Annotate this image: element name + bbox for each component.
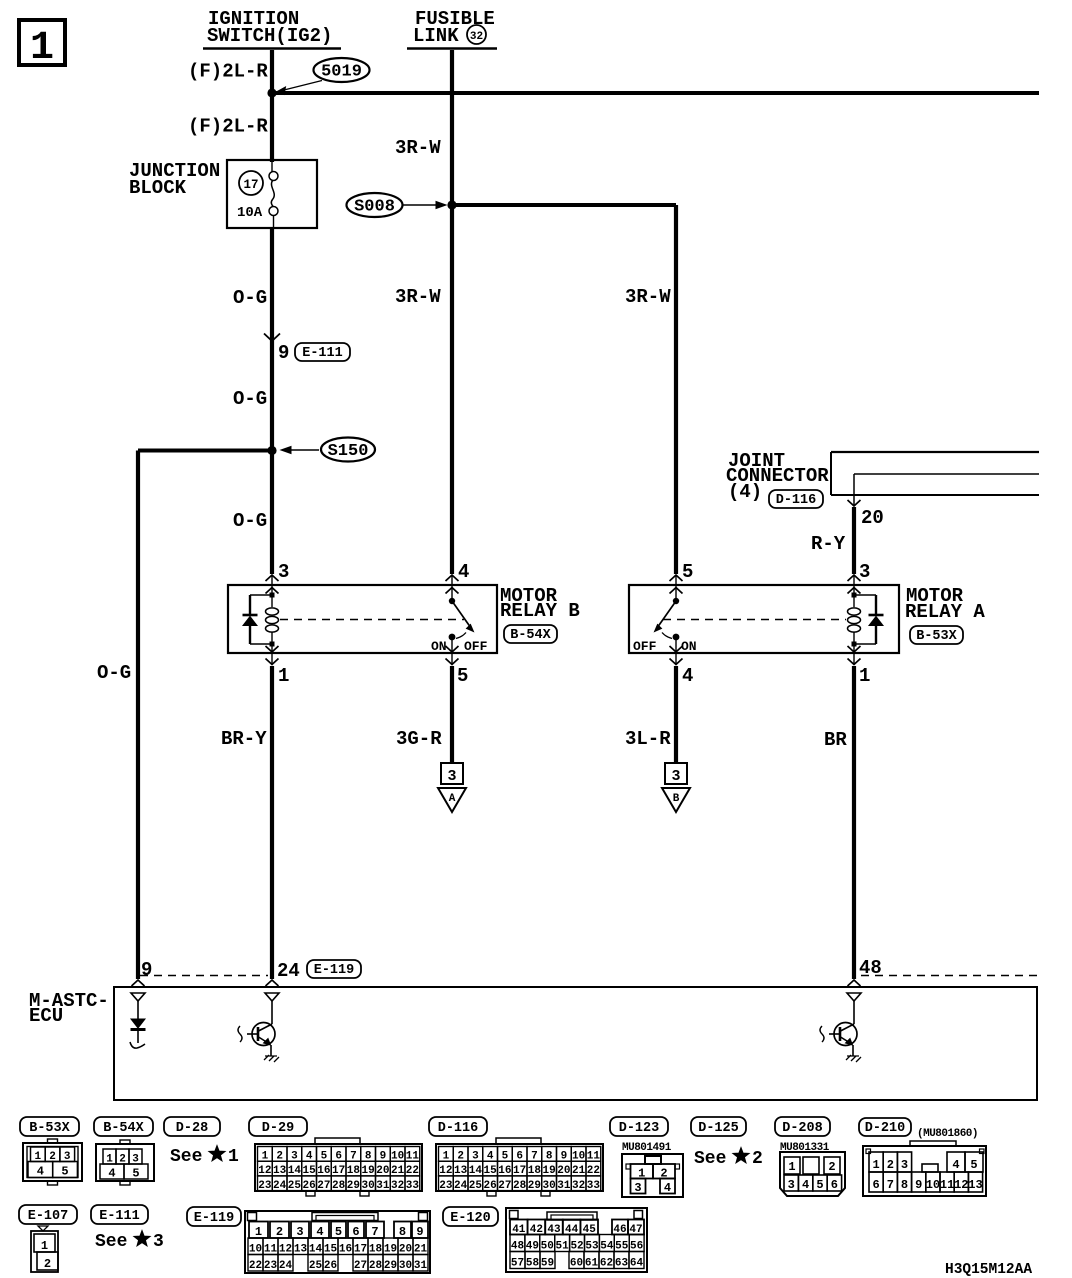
svg-text:28: 28 bbox=[369, 1260, 383, 1272]
svg-text:7: 7 bbox=[887, 1178, 894, 1192]
relay A connector ident B-53X bbox=[910, 626, 963, 644]
svg-text:1: 1 bbox=[228, 1147, 239, 1167]
svg-text:3: 3 bbox=[447, 768, 456, 785]
wire: left O-G branch down to ECU pin 9 bbox=[136, 451, 140, 980]
svg-text:5: 5 bbox=[335, 1225, 342, 1239]
wire: horizontal O-G branch at S150 bbox=[138, 449, 272, 453]
terminal chevrons relay B pin 5 bbox=[446, 646, 459, 665]
svg-text:9: 9 bbox=[141, 959, 152, 981]
svg-text:13: 13 bbox=[968, 1178, 982, 1192]
wire: 3R-W branch down to relay A pin 5 bbox=[674, 205, 678, 574]
svg-text:8: 8 bbox=[901, 1178, 908, 1192]
relay B name label bbox=[500, 585, 580, 622]
fusible link 32 power source label bbox=[407, 8, 497, 49]
svg-text:48: 48 bbox=[859, 957, 882, 979]
svg-text:3R-W: 3R-W bbox=[395, 286, 441, 308]
terminal chevron at joint connector pin 20 bbox=[848, 500, 861, 506]
svg-text:49: 49 bbox=[526, 1241, 539, 1253]
svg-text:5: 5 bbox=[457, 665, 468, 687]
terminal chevron ECU pin 48 bbox=[848, 980, 861, 986]
terminal chevrons relay A pin 4 bbox=[670, 646, 683, 665]
svg-text:23: 23 bbox=[264, 1260, 278, 1272]
svg-text:D-116: D-116 bbox=[438, 1121, 479, 1136]
svg-text:R-Y: R-Y bbox=[811, 533, 846, 555]
wire 3G-R from relay B pin 5 bbox=[450, 666, 454, 763]
svg-text:O-G: O-G bbox=[97, 662, 131, 684]
svg-text:ON: ON bbox=[681, 639, 697, 654]
svg-text:BR: BR bbox=[824, 729, 847, 751]
svg-text:1: 1 bbox=[278, 665, 289, 687]
connector ident D-125 bbox=[691, 1117, 746, 1136]
svg-text:4: 4 bbox=[802, 1178, 809, 1192]
svg-text:E-120: E-120 bbox=[450, 1211, 491, 1226]
svg-text:23: 23 bbox=[258, 1180, 272, 1192]
splice S150 callout bbox=[281, 438, 375, 462]
svg-text:RELAY B: RELAY B bbox=[500, 600, 580, 622]
svg-text:60: 60 bbox=[570, 1258, 583, 1270]
svg-text:1: 1 bbox=[30, 26, 54, 71]
ECU output transistor on pin 48 bbox=[820, 1001, 861, 1062]
ECU output transistor on pin 24 bbox=[238, 1001, 279, 1062]
svg-text:(MU801860): (MU801860) bbox=[917, 1128, 978, 1140]
svg-text:32: 32 bbox=[572, 1180, 585, 1192]
svg-text:17: 17 bbox=[354, 1244, 367, 1256]
svg-text:3G-R: 3G-R bbox=[396, 728, 442, 750]
connector drawing D-116 bbox=[436, 1138, 603, 1196]
svg-text:4: 4 bbox=[952, 1158, 959, 1172]
svg-text:ON: ON bbox=[431, 639, 447, 654]
connector E-119 boundary dashes right bbox=[861, 975, 1039, 977]
relay A flyback diode bbox=[854, 595, 884, 644]
terminal chevrons relay A pin 3 bbox=[848, 575, 861, 594]
svg-text:63: 63 bbox=[615, 1258, 629, 1270]
svg-text:D-116: D-116 bbox=[776, 493, 817, 508]
svg-text:See: See bbox=[170, 1147, 202, 1167]
svg-text:B: B bbox=[673, 793, 680, 805]
svg-text:6: 6 bbox=[352, 1225, 359, 1239]
svg-text:RELAY A: RELAY A bbox=[905, 601, 985, 623]
node: junction of ignition wire and top bus bbox=[267, 88, 276, 97]
relay B flyback diode bbox=[243, 595, 273, 644]
svg-text:BLOCK: BLOCK bbox=[129, 177, 187, 199]
svg-text:14: 14 bbox=[309, 1244, 323, 1256]
relay B coil bbox=[266, 575, 279, 664]
svg-text:24: 24 bbox=[277, 960, 300, 982]
connector ident D-208 bbox=[775, 1117, 830, 1136]
svg-text:OFF: OFF bbox=[464, 639, 488, 654]
svg-text:4: 4 bbox=[458, 561, 469, 583]
wire BR-Y from relay B pin 1 to ECU pin 24 bbox=[270, 666, 274, 979]
svg-text:ECU: ECU bbox=[29, 1005, 63, 1027]
svg-text:30: 30 bbox=[543, 1180, 556, 1192]
svg-text:24: 24 bbox=[273, 1180, 287, 1192]
fuse 17 circle designator bbox=[239, 171, 263, 195]
svg-text:15: 15 bbox=[324, 1244, 338, 1256]
svg-text:3: 3 bbox=[859, 561, 870, 583]
svg-text:B-54X: B-54X bbox=[103, 1121, 144, 1136]
splice S008 callout bbox=[347, 193, 447, 217]
connector drawing B-54X bbox=[96, 1140, 154, 1185]
relay B switch bbox=[449, 575, 474, 664]
svg-text:7: 7 bbox=[371, 1225, 378, 1239]
joint connector (4) label bbox=[726, 450, 829, 503]
ECU input socket pin 48 bbox=[847, 993, 861, 1001]
terminal chevron ECU pin 24 bbox=[266, 980, 279, 986]
svg-text:1: 1 bbox=[41, 1239, 48, 1253]
svg-text:24: 24 bbox=[454, 1180, 468, 1192]
M-ASTC-ECU box bbox=[114, 987, 1037, 1100]
svg-text:64: 64 bbox=[630, 1258, 644, 1270]
svg-text:33: 33 bbox=[406, 1180, 420, 1192]
connector drawing E-119 bbox=[245, 1211, 430, 1273]
svg-text:4: 4 bbox=[682, 665, 693, 687]
svg-text:32: 32 bbox=[391, 1180, 404, 1192]
svg-text:BR-Y: BR-Y bbox=[221, 728, 267, 750]
relay B connector ident B-54X bbox=[504, 625, 557, 643]
svg-text:20: 20 bbox=[861, 507, 884, 529]
svg-text:6: 6 bbox=[872, 1178, 879, 1192]
connector ident D-116 bbox=[429, 1117, 487, 1136]
svg-text:1: 1 bbox=[859, 665, 870, 687]
svg-text:26: 26 bbox=[303, 1180, 316, 1192]
svg-text:2: 2 bbox=[828, 1160, 835, 1174]
svg-text:5: 5 bbox=[970, 1158, 977, 1172]
svg-text:O-G: O-G bbox=[233, 510, 267, 532]
svg-text:3: 3 bbox=[278, 561, 289, 583]
terminal chevrons relay B pin 1 bbox=[266, 646, 279, 665]
svg-text:3: 3 bbox=[153, 1232, 164, 1252]
connector ident B-54X bbox=[94, 1117, 153, 1136]
svg-text:61: 61 bbox=[585, 1258, 599, 1270]
relay B armature linkage dashes bbox=[280, 619, 464, 621]
svg-text:25: 25 bbox=[309, 1260, 323, 1272]
terminal chevron ECU pin 9 bbox=[132, 980, 145, 986]
svg-text:3R-W: 3R-W bbox=[395, 137, 441, 159]
svg-text:24: 24 bbox=[279, 1260, 293, 1272]
terminal chevrons relay A pin 1 bbox=[848, 646, 861, 665]
wire 3R-W from fusible link down to relay B pin 4 bbox=[450, 50, 454, 574]
svg-text:(F)2L-R: (F)2L-R bbox=[188, 61, 268, 83]
splice 5019 callout bbox=[276, 58, 370, 95]
svg-text:58: 58 bbox=[526, 1258, 540, 1270]
connector drawing E-107 bbox=[31, 1226, 58, 1272]
svg-text:O-G: O-G bbox=[233, 388, 267, 410]
junction block label bbox=[129, 160, 220, 199]
svg-text:51: 51 bbox=[556, 1241, 570, 1253]
svg-text:27: 27 bbox=[498, 1180, 511, 1192]
svg-text:3R-W: 3R-W bbox=[625, 286, 671, 308]
svg-text:O-G: O-G bbox=[233, 287, 267, 309]
svg-text:5019: 5019 bbox=[321, 63, 362, 82]
svg-text:6: 6 bbox=[831, 1178, 838, 1192]
svg-text:25: 25 bbox=[469, 1180, 483, 1192]
connector ident D-29 bbox=[249, 1117, 307, 1136]
svg-text:2: 2 bbox=[44, 1257, 51, 1271]
svg-text:B-54X: B-54X bbox=[510, 628, 551, 643]
wire inside joint connector bbox=[854, 474, 1039, 505]
svg-text:13: 13 bbox=[294, 1244, 308, 1256]
svg-text:A: A bbox=[449, 793, 456, 805]
wire O-G from junction block to relay B pin 3 bbox=[270, 228, 274, 574]
svg-text:30: 30 bbox=[362, 1180, 375, 1192]
svg-text:D-29: D-29 bbox=[262, 1121, 294, 1136]
connector ident B-53X bbox=[20, 1117, 79, 1136]
M-ASTC-ECU label bbox=[29, 990, 109, 1027]
junction block box bbox=[227, 160, 317, 228]
relay A name label bbox=[905, 585, 985, 623]
connector E-119 ident at ECU bbox=[307, 960, 361, 978]
svg-text:4: 4 bbox=[316, 1225, 323, 1239]
ignition switch (IG2) power source label bbox=[203, 8, 341, 49]
connector drawing D-29 bbox=[255, 1138, 422, 1196]
svg-text:22: 22 bbox=[249, 1260, 262, 1272]
svg-text:3: 3 bbox=[901, 1158, 908, 1172]
inter-page terminal 3 / triangle A bbox=[438, 763, 466, 812]
terminal chevrons relay A pin 5 bbox=[670, 575, 683, 594]
svg-text:MU801491: MU801491 bbox=[622, 1142, 672, 1154]
svg-text:53: 53 bbox=[585, 1241, 599, 1253]
fuse symbol bbox=[269, 162, 278, 228]
ECU input socket pin 24 bbox=[265, 993, 279, 1001]
connector drawing D-210 bbox=[863, 1141, 986, 1196]
svg-text:28: 28 bbox=[332, 1180, 346, 1192]
svg-text:9: 9 bbox=[278, 342, 289, 364]
svg-text:57: 57 bbox=[511, 1258, 524, 1270]
connector ident D-123 bbox=[610, 1117, 668, 1136]
svg-text:29: 29 bbox=[384, 1260, 397, 1272]
svg-text:54: 54 bbox=[600, 1241, 614, 1253]
svg-text:25: 25 bbox=[288, 1180, 302, 1192]
svg-text:52: 52 bbox=[570, 1241, 583, 1253]
svg-text:50: 50 bbox=[541, 1241, 554, 1253]
svg-text:8: 8 bbox=[399, 1225, 406, 1239]
svg-text:31: 31 bbox=[376, 1180, 390, 1192]
connector ident E-120 bbox=[443, 1207, 498, 1226]
svg-text:D-28: D-28 bbox=[176, 1121, 208, 1136]
svg-text:D-123: D-123 bbox=[619, 1121, 660, 1136]
page number box bbox=[19, 20, 65, 71]
svg-text:5: 5 bbox=[682, 561, 693, 583]
svg-text:3: 3 bbox=[634, 1181, 641, 1195]
wire: horizontal 3R-W branch from S008 bbox=[452, 203, 676, 207]
connector E-119 boundary dashes left bbox=[140, 975, 268, 977]
connector ident D-28 bbox=[164, 1117, 220, 1136]
svg-text:30: 30 bbox=[399, 1260, 412, 1272]
svg-text:D-125: D-125 bbox=[698, 1121, 739, 1136]
node: S150 junction dot bbox=[267, 446, 276, 455]
svg-text:55: 55 bbox=[615, 1241, 629, 1253]
connector drawing B-53X bbox=[23, 1139, 82, 1185]
svg-text:D-210: D-210 bbox=[865, 1121, 906, 1136]
svg-text:OFF: OFF bbox=[633, 639, 657, 654]
svg-text:5: 5 bbox=[132, 1167, 139, 1181]
connector E-111 pass-through pin 9 bbox=[264, 334, 350, 365]
svg-text:3: 3 bbox=[671, 768, 680, 785]
svg-text:3L-R: 3L-R bbox=[625, 728, 671, 750]
svg-text:56: 56 bbox=[630, 1241, 643, 1253]
svg-text:31: 31 bbox=[557, 1180, 571, 1192]
svg-text:12: 12 bbox=[954, 1178, 968, 1192]
svg-text:12: 12 bbox=[279, 1244, 292, 1256]
svg-text:19: 19 bbox=[384, 1244, 397, 1256]
svg-text:26: 26 bbox=[484, 1180, 497, 1192]
svg-text:1: 1 bbox=[788, 1160, 795, 1174]
relay box MOTOR RELAY A bbox=[629, 585, 899, 653]
connector drawing D-208 bbox=[780, 1152, 845, 1196]
svg-text:E-111: E-111 bbox=[302, 346, 343, 361]
svg-text:26: 26 bbox=[324, 1260, 337, 1272]
node: S008 junction dot bbox=[447, 200, 456, 209]
note See star-1 bbox=[170, 1146, 239, 1168]
connector drawing E-120 bbox=[506, 1208, 647, 1272]
svg-text:1: 1 bbox=[255, 1225, 262, 1239]
svg-text:5: 5 bbox=[816, 1178, 823, 1192]
svg-text:2: 2 bbox=[752, 1149, 763, 1169]
wire R-Y from joint connector to relay A pin 3 bbox=[852, 507, 856, 574]
connector ident E-119 bbox=[187, 1207, 241, 1226]
connector ident D-210 bbox=[859, 1118, 911, 1136]
svg-text:9: 9 bbox=[915, 1178, 922, 1192]
svg-text:27: 27 bbox=[317, 1180, 330, 1192]
ECU internal diode on pin 9 bbox=[130, 1001, 146, 1048]
svg-text:21: 21 bbox=[414, 1244, 428, 1256]
connector ident E-111 bbox=[91, 1205, 148, 1224]
svg-text:62: 62 bbox=[600, 1258, 613, 1270]
svg-text:LINK: LINK bbox=[413, 25, 459, 47]
terminal chevrons relay B pin 3 bbox=[266, 575, 279, 594]
svg-text:31: 31 bbox=[414, 1260, 428, 1272]
joint connector D-116 ident bbox=[769, 490, 823, 508]
svg-text:48: 48 bbox=[511, 1241, 525, 1253]
svg-text:3: 3 bbox=[296, 1225, 303, 1239]
svg-text:3: 3 bbox=[788, 1178, 795, 1192]
svg-text:S008: S008 bbox=[354, 198, 395, 217]
svg-text:11: 11 bbox=[940, 1178, 954, 1192]
svg-text:E-119: E-119 bbox=[194, 1211, 235, 1226]
wire from ignition switch (F)2L-R bbox=[270, 50, 274, 162]
svg-text:D-208: D-208 bbox=[782, 1121, 823, 1136]
svg-text:10A: 10A bbox=[237, 205, 263, 221]
inter-page terminal 3 / triangle B bbox=[662, 763, 690, 812]
svg-text:5: 5 bbox=[61, 1165, 68, 1179]
svg-text:59: 59 bbox=[541, 1258, 554, 1270]
svg-text:B-53X: B-53X bbox=[29, 1121, 70, 1136]
note See star-2 bbox=[694, 1148, 763, 1170]
svg-text:11: 11 bbox=[264, 1244, 278, 1256]
connector drawing D-123 bbox=[622, 1154, 683, 1197]
svg-text:4: 4 bbox=[37, 1165, 44, 1179]
relay A armature linkage dashes bbox=[663, 619, 846, 621]
wire 3L-R from relay A pin 4 bbox=[674, 666, 678, 763]
svg-text:32: 32 bbox=[470, 31, 483, 43]
svg-text:29: 29 bbox=[347, 1180, 360, 1192]
svg-text:S150: S150 bbox=[328, 442, 369, 461]
svg-text:See: See bbox=[694, 1149, 726, 1169]
svg-text:2: 2 bbox=[276, 1225, 283, 1239]
svg-text:E-107: E-107 bbox=[28, 1209, 69, 1224]
svg-text:23: 23 bbox=[439, 1180, 453, 1192]
svg-text:33: 33 bbox=[587, 1180, 601, 1192]
svg-text:(F)2L-R: (F)2L-R bbox=[188, 116, 268, 138]
svg-text:B-53X: B-53X bbox=[916, 629, 957, 644]
svg-text:See: See bbox=[95, 1232, 127, 1252]
svg-text:4: 4 bbox=[108, 1167, 115, 1181]
svg-text:E-119: E-119 bbox=[314, 963, 355, 978]
relay A switch bbox=[655, 575, 680, 664]
note See star-3 bbox=[95, 1231, 164, 1253]
svg-text:SWITCH(IG2): SWITCH(IG2) bbox=[207, 25, 332, 47]
wire BR from relay A pin 1 to ECU pin 48 bbox=[852, 666, 856, 979]
wire: top horizontal bus to page edge bbox=[272, 91, 1039, 95]
svg-text:29: 29 bbox=[528, 1180, 541, 1192]
svg-text:4: 4 bbox=[664, 1181, 671, 1195]
svg-text:27: 27 bbox=[354, 1260, 367, 1272]
svg-text:1: 1 bbox=[872, 1158, 879, 1172]
svg-text:(4): (4) bbox=[728, 481, 762, 503]
terminal chevrons relay B pin 4 bbox=[446, 575, 459, 594]
ECU input socket pin 9 bbox=[131, 993, 145, 1001]
svg-text:18: 18 bbox=[369, 1244, 383, 1256]
svg-text:28: 28 bbox=[513, 1180, 527, 1192]
svg-text:10: 10 bbox=[249, 1244, 262, 1256]
svg-text:10: 10 bbox=[926, 1178, 940, 1192]
relay box MOTOR RELAY B bbox=[228, 585, 497, 653]
svg-text:H3Q15M12AA: H3Q15M12AA bbox=[945, 1262, 1032, 1278]
svg-text:E-111: E-111 bbox=[99, 1209, 140, 1224]
relay A coil bbox=[848, 575, 861, 664]
connector ident E-107 bbox=[19, 1205, 77, 1224]
svg-text:2: 2 bbox=[887, 1158, 894, 1172]
joint connector box bbox=[831, 452, 1039, 495]
svg-text:17: 17 bbox=[243, 178, 258, 192]
svg-text:20: 20 bbox=[399, 1244, 412, 1256]
svg-text:9: 9 bbox=[416, 1225, 423, 1239]
svg-text:16: 16 bbox=[339, 1244, 352, 1256]
